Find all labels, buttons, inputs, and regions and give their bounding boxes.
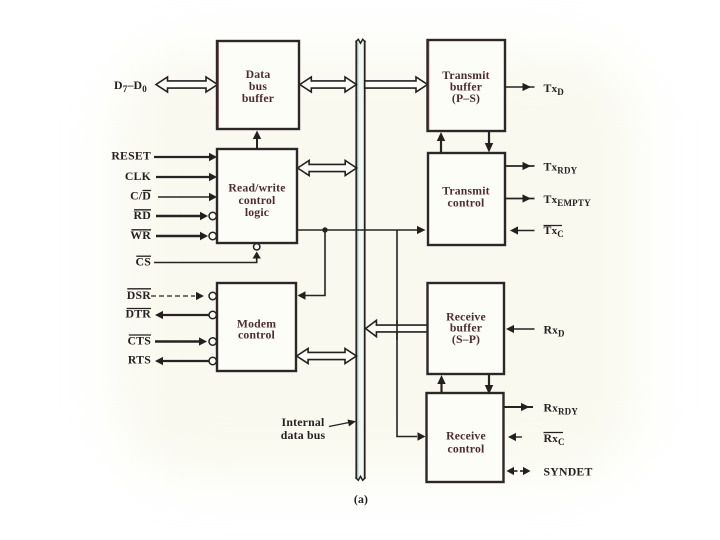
pin CTS (overbar, inverted) (127, 334, 216, 348)
svg-text:logic: logic (245, 206, 269, 219)
svg-text:Read/write: Read/write (228, 182, 285, 195)
block: Transmit control (428, 153, 505, 245)
pin TxD (output) (506, 81, 564, 97)
svg-text:buffer: buffer (242, 92, 274, 105)
svg-text:TxD: TxD (544, 81, 565, 97)
pin RxD (input) (506, 323, 565, 339)
bus arrow: modem control to internal bus (double-headed open arrow) (297, 349, 357, 364)
svg-text:SYNDET: SYNDET (544, 465, 593, 479)
pin DSR (overbar, inverted, dashed line) (127, 288, 217, 302)
block: Modem control (217, 283, 296, 371)
svg-text:(a): (a) (354, 492, 368, 506)
block: Read/write control logic (217, 149, 297, 243)
svg-text:RTS: RTS (128, 353, 151, 367)
svg-text:(S–P): (S–P) (452, 333, 480, 346)
pin RxC (overbar, input) (508, 431, 565, 447)
pin TxEMPTY (output) (506, 192, 592, 208)
pin TxRDY (output) (506, 160, 578, 176)
pin WR (overbar, inverted) (130, 228, 216, 242)
bus arrow: data bus buffer to internal bus (double-headed open arrow) (300, 77, 357, 92)
block: Receive buffer (S-P) (428, 283, 505, 374)
bus arrow: D7-D0 to data bus buffer (double-headed open arrow) (156, 77, 218, 92)
svg-text:Receive: Receive (446, 430, 486, 443)
svg-text:RxRDY: RxRDY (544, 401, 579, 417)
label: internal data bus with pointer (281, 415, 356, 442)
svg-text:RESET: RESET (111, 149, 151, 163)
wire: branch from control line into modem control (298, 230, 326, 300)
svg-text:TxEMPTY: TxEMPTY (544, 192, 592, 208)
pin TxC (overbar, input) (510, 223, 564, 239)
block: Receive control (427, 393, 504, 482)
pin RTS (inverted, output arrow left) (128, 353, 217, 367)
wire: receive buffer to receive control (arrow down) (485, 375, 493, 395)
svg-text:Internal: Internal (282, 415, 325, 429)
wire: receive control to receive buffer (arrow up) (437, 375, 445, 393)
wire: transmit control to transmit buffer (arrow up) (437, 132, 445, 153)
internal data bus (vertical double line with cyan interior) (356, 39, 366, 480)
wire: transmit buffer to transmit control (arrow down) (485, 131, 493, 153)
svg-text:(P–S): (P–S) (452, 92, 480, 105)
pin RxRDY (output) (504, 401, 578, 417)
block: Data bus buffer (217, 41, 299, 129)
pin RESET (111, 149, 217, 163)
wire: read/write logic to data bus buffer (arrow up) (253, 131, 261, 150)
bus arrow: internal bus to read/write control logic (double-headed open arrow) (298, 161, 357, 176)
pin RD (overbar, inverted) (134, 208, 217, 222)
wire: receive-control branch redrawn over arrow (396, 320, 398, 340)
pin DTR (overbar, inverted, output arrow left) (125, 307, 216, 321)
pin CLK (125, 169, 217, 183)
svg-text:RxC: RxC (544, 431, 565, 447)
svg-text:RxD: RxD (544, 323, 565, 339)
pin CS (overbar, to bottom of read/write logic) (136, 244, 261, 269)
svg-text:control: control (448, 443, 485, 456)
bus arrow: receive buffer to internal bus (open arrow pointing left) (366, 320, 428, 336)
pin C/D (D overbar) (130, 189, 217, 203)
wire: control line read/write logic to transmit control (298, 226, 426, 234)
block: Transmit buffer (P-S) (428, 40, 506, 131)
svg-text:control: control (448, 197, 485, 210)
node: junction on control line above modem control (322, 227, 327, 232)
wire: branch from control line into receive control (397, 230, 426, 441)
svg-text:DSR: DSR (127, 288, 151, 302)
svg-text:TxRDY: TxRDY (544, 160, 578, 176)
svg-text:D7–D0: D7–D0 (114, 78, 147, 94)
svg-text:control: control (238, 329, 275, 342)
bus arrow: internal bus to transmit buffer (open arrow, shaft across bus) (365, 77, 428, 92)
svg-text:data bus: data bus (281, 428, 326, 442)
pin SYNDET (bidirectional) (507, 465, 593, 479)
svg-text:CLK: CLK (125, 169, 152, 183)
